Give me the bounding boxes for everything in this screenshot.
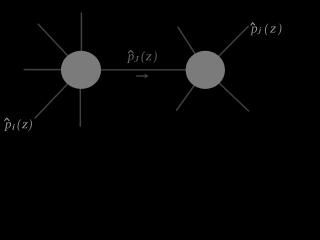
wire: left node NW spoke — [38, 24, 81, 70]
wire: connector edge between node i and node j — [81, 69, 206, 71]
label p_hat_J(z) on connector — [127, 51, 157, 63]
wire: left node W spoke — [24, 69, 81, 71]
label p_hat_j(z) top right — [250, 23, 281, 36]
wire: left node N spoke — [80, 13, 82, 70]
node j (right circle) — [186, 51, 225, 89]
wire: right node SE spoke — [205, 70, 248, 111]
arrow: message direction under connector — [136, 74, 148, 79]
wire: left node S spoke — [79, 70, 81, 126]
wire: right node NW spoke — [178, 27, 205, 70]
label p_hat_i(z) bottom left — [4, 118, 32, 131]
wire: right node SW spoke — [177, 70, 206, 110]
wire: left node SW spoke — [35, 70, 81, 118]
wire: right node NE spoke — [205, 26, 248, 70]
node i (left circle) — [61, 51, 101, 89]
